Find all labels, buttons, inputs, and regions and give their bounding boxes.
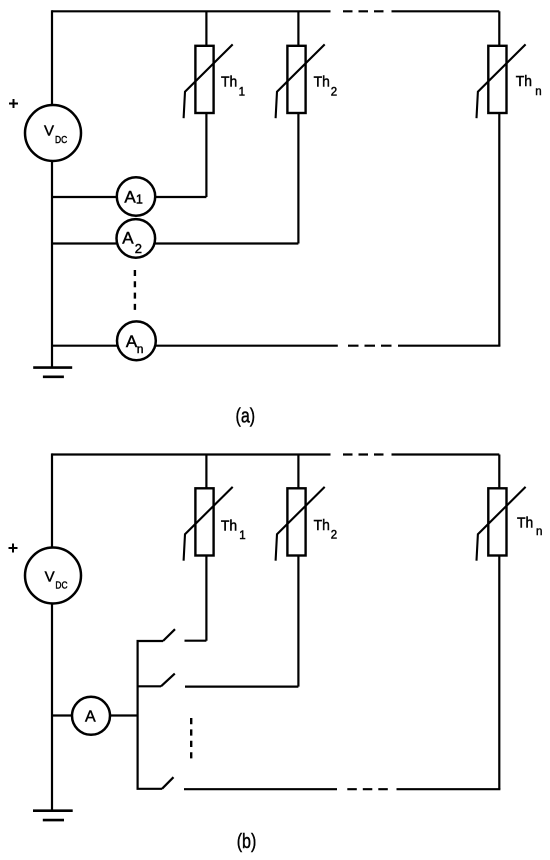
switch S2 (b) bbox=[137, 674, 299, 687]
svg-text:1: 1 bbox=[239, 530, 245, 542]
wire top bus (b) right solid segment bbox=[392, 453, 500, 455]
svg-text:Th: Th bbox=[314, 74, 330, 90]
ammeter A1 bbox=[117, 177, 155, 215]
thermistor Th2 (b) bbox=[276, 487, 325, 561]
ammeter A bbox=[72, 697, 110, 735]
thermistor Th2 (a) bbox=[276, 44, 325, 118]
wire branch n lower drop (a): Thn down to An row bbox=[498, 113, 500, 346]
ammeter A2 bbox=[117, 219, 156, 258]
svg-text:1: 1 bbox=[239, 86, 245, 98]
svg-text:n: n bbox=[535, 86, 541, 98]
wire switch bus vertical (b) bbox=[137, 641, 139, 789]
wire top bus (a) right solid segment bbox=[392, 10, 500, 12]
switch S1 (b) bbox=[137, 629, 207, 641]
svg-text:Th: Th bbox=[221, 519, 237, 535]
thermistor Thn (b) bbox=[477, 487, 526, 561]
wire A row left (b): left bus to A bbox=[52, 714, 72, 716]
wire left bus (b) upper (top bus to VDC) bbox=[51, 453, 53, 547]
wire top bus (b) left solid segment bbox=[52, 453, 331, 455]
wire bottom row dashed continuation (b) bbox=[347, 788, 388, 790]
wire A2 row left (a): left bus to A2 bbox=[52, 242, 117, 244]
svg-text:Th: Th bbox=[314, 518, 330, 534]
svg-text:n: n bbox=[536, 526, 542, 538]
voltage source VDC (a) bbox=[25, 105, 81, 161]
wire A2 row right (a): A2 to branch 2 bbox=[155, 242, 299, 244]
ground (b) bbox=[33, 811, 73, 820]
dashed ellipsis wire between S2 and Sn bbox=[190, 718, 192, 758]
ammeter An bbox=[117, 321, 156, 360]
wire A1 row right (a): A1 to branch 1 bbox=[155, 196, 207, 198]
wire An row right solid (a): An toward branch n bbox=[155, 345, 337, 347]
wire branch 2 lower drop (b): Th2 down to switch S2 level bbox=[297, 556, 299, 687]
wire branch n upper drop (b): top bus to Thn bbox=[498, 455, 500, 489]
wire branch 2 lower drop (a): Th2 to A2 row bbox=[297, 113, 299, 244]
svg-text:(b): (b) bbox=[237, 831, 257, 853]
wire An row left (a): left bus to An bbox=[52, 345, 117, 347]
thermistor Th1 (b) bbox=[184, 487, 233, 561]
wire branch n upper drop (a): top bus to Thn bbox=[498, 11, 500, 46]
svg-text:Th: Th bbox=[516, 74, 532, 90]
wire An row dashed continuation (a) bbox=[348, 345, 392, 347]
switch Sn (b) bbox=[137, 777, 338, 789]
wire branch 1 lower drop (a): Th1 to A1 row bbox=[205, 113, 207, 197]
thermistor Th1 (a) bbox=[184, 44, 233, 118]
wire left bus (a) upper (top bus to VDC) bbox=[51, 10, 53, 105]
wire left bus (b) lower (VDC to ground) bbox=[51, 604, 53, 810]
svg-text:(a): (a) bbox=[236, 406, 256, 428]
svg-text:Th: Th bbox=[221, 74, 237, 90]
wire top bus (a) dashed continuation bbox=[343, 10, 384, 12]
svg-text:A: A bbox=[122, 229, 134, 248]
svg-text:Th: Th bbox=[517, 516, 533, 532]
wire left bus (a) lower (VDC to ground) bbox=[51, 161, 53, 367]
wire An row right solid end (a): to branch n bbox=[398, 345, 500, 347]
wire top bus (b) dashed continuation bbox=[343, 453, 384, 455]
wire branch 1 upper drop (b): top bus to Th1 bbox=[205, 455, 207, 489]
svg-text:V: V bbox=[45, 569, 55, 586]
voltage source VDC (b) bbox=[25, 548, 81, 604]
svg-text:2: 2 bbox=[135, 241, 142, 256]
svg-text:V: V bbox=[44, 123, 54, 140]
svg-text:DC: DC bbox=[55, 134, 68, 146]
svg-text:A: A bbox=[85, 708, 96, 725]
wire branch 1 lower drop (b): Th1 to switch S1 bbox=[205, 556, 207, 641]
wire A1 row left (a): left bus to A1 bbox=[52, 196, 117, 198]
svg-text:DC: DC bbox=[55, 579, 68, 591]
svg-text:2: 2 bbox=[331, 530, 337, 542]
wire branch 2 upper drop (b): top bus to Th2 bbox=[297, 455, 299, 489]
plus polarity mark (a) bbox=[9, 99, 18, 108]
wire branch 2 upper drop (a): top bus to Th2 bbox=[297, 11, 299, 46]
svg-text:A: A bbox=[124, 188, 136, 207]
dashed ellipsis wire between A2 and An bbox=[134, 270, 136, 311]
svg-text:1: 1 bbox=[136, 193, 143, 207]
wire branch n lower drop (b): Thn down to bottom row bbox=[498, 556, 500, 790]
wire top bus (a) left solid segment bbox=[52, 10, 331, 12]
svg-text:n: n bbox=[137, 342, 144, 356]
wire branch 1 upper drop (a): top bus to Th1 bbox=[205, 11, 207, 46]
thermistor Thn (a) bbox=[477, 44, 526, 118]
ground (a) bbox=[33, 368, 72, 377]
wire bottom row right solid (b): to branch n bbox=[397, 788, 501, 790]
wire A row right (b): A to switch bus bbox=[110, 714, 138, 716]
plus polarity mark (b) bbox=[9, 544, 18, 553]
svg-text:2: 2 bbox=[331, 86, 337, 98]
